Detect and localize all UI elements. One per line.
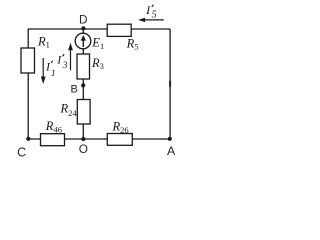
wire center branch D-B-O bbox=[82, 29, 84, 139]
blip on right wire bbox=[169, 81, 171, 87]
svg-text:D: D bbox=[79, 13, 88, 27]
wire left side bbox=[27, 29, 29, 139]
source E1 arrow bbox=[81, 35, 86, 47]
svg-text:3: 3 bbox=[62, 61, 68, 71]
svg-text:B: B bbox=[71, 83, 78, 95]
source E1 circle bbox=[75, 33, 91, 49]
resistor R3 bbox=[77, 54, 90, 79]
resistor R26 bbox=[107, 134, 132, 146]
resistor R1 bbox=[21, 48, 35, 73]
current arrow I'1 bbox=[41, 58, 46, 84]
node D dot bbox=[81, 26, 85, 30]
svg-text:A: A bbox=[167, 144, 176, 158]
svg-text:5: 5 bbox=[152, 9, 157, 20]
svg-text:C: C bbox=[17, 146, 26, 160]
resistor R5 bbox=[107, 24, 131, 36]
wire top: C-D-R5-corner bbox=[28, 28, 170, 30]
node A dot bbox=[168, 137, 172, 141]
node C dot bbox=[26, 137, 30, 141]
svg-text:O: O bbox=[79, 142, 88, 156]
current arrow I'3 bbox=[68, 43, 73, 71]
wire bottom: C-O-A bbox=[28, 138, 170, 140]
label I'5 bbox=[145, 3, 157, 21]
resistor R46 bbox=[41, 134, 65, 146]
node B dot bbox=[81, 83, 85, 87]
current arrow I'5 bbox=[138, 18, 164, 23]
node O dot bbox=[81, 137, 85, 141]
resistor R24 bbox=[77, 100, 90, 125]
label I'1 bbox=[45, 59, 56, 79]
svg-text:1: 1 bbox=[51, 69, 56, 79]
label I'3 bbox=[56, 53, 67, 71]
wire right side bbox=[169, 29, 171, 139]
